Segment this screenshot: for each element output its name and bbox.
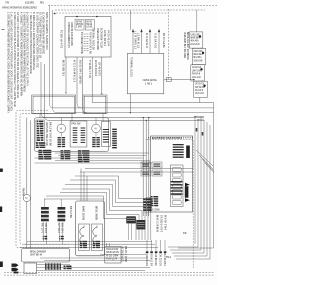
right rail wire 1 xyxy=(194,117,196,245)
stack2 wire end connector xyxy=(59,236,64,240)
svg-text:THERMAL FUSE BK: THERMAL FUSE BK xyxy=(92,28,96,50)
coil 1 connector block xyxy=(80,241,87,248)
svg-text:P2 BK W-4 P2: P2 BK W-4 P2 xyxy=(60,30,64,48)
control board upper connector rows xyxy=(173,144,184,158)
bus wire upper 2 xyxy=(45,64,205,120)
drop to stack 1 xyxy=(44,199,46,207)
svg-text:GY 41-8 GY: GY 41-8 GY xyxy=(98,62,102,76)
staircase wire 5 xyxy=(170,249,201,251)
right rail wire 2 xyxy=(197,120,199,247)
svg-text:REV: REV xyxy=(40,0,45,4)
right rail wire 4 xyxy=(203,120,205,253)
bottom label wire 2 xyxy=(151,240,153,251)
arrowhead supply 1 xyxy=(132,29,134,32)
svg-text:TERMINAL BLOCK: TERMINAL BLOCK xyxy=(130,57,134,77)
stack1 wire end connector xyxy=(43,236,48,240)
switch circle C2 xyxy=(92,124,101,133)
bottom label wire 4 xyxy=(160,240,162,251)
bottom label wire 1 xyxy=(146,240,148,251)
svg-text:BU 18-1: BU 18-1 xyxy=(61,223,65,234)
junction on bus xyxy=(130,112,131,113)
dashed vertical sub-frame right xyxy=(168,9,170,80)
tick marks above control border xyxy=(148,137,193,138)
dark connector under C1 xyxy=(61,150,71,159)
diagonal wire 2 xyxy=(199,155,213,169)
plug body box xyxy=(24,263,37,274)
wire S2 to M3 xyxy=(102,114,104,122)
switch module row outer box xyxy=(35,118,109,152)
diagonal wire 3 xyxy=(202,159,214,171)
stepped chain 6 xyxy=(46,196,136,240)
dark cluster board lower-left xyxy=(151,196,159,206)
junction dot on box A top 1 xyxy=(76,16,78,18)
svg-text:CLK BK9 CLK: CLK BK9 CLK xyxy=(154,254,158,267)
pin ladder box A xyxy=(84,34,89,51)
svg-text:GY 16-4: GY 16-4 xyxy=(57,223,61,233)
dark connector mid-bus xyxy=(78,150,90,162)
cascade connecting jogs xyxy=(200,47,203,49)
left wire to motor xyxy=(26,118,28,195)
notes text block xyxy=(7,12,49,113)
svg-text:BAKE 2600W: BAKE 2600W xyxy=(82,206,86,220)
svg-text:HI-R- HI-R-: HI-R- HI-R- xyxy=(192,75,201,79)
svg-text:UNIT BK-W: UNIT BK-W xyxy=(30,253,42,257)
terminal bar wire A1 xyxy=(65,92,67,94)
right rail wire 3 xyxy=(200,117,202,251)
wire below box A 4 going right xyxy=(92,57,213,103)
stepped chain 5 xyxy=(60,193,139,241)
svg-text:P5-2: P5-2 xyxy=(166,255,171,259)
svg-text:BROIL 3400W: BROIL 3400W xyxy=(95,206,99,220)
svg-text:GY 18-2 W GY: GY 18-2 W GY xyxy=(121,246,125,262)
bottom wire 1 xyxy=(40,257,148,259)
svg-text:DOOR SW BK-7 DOOR: DOOR SW BK-7 DOOR xyxy=(100,28,104,48)
svg-text:P/N: P/N xyxy=(6,0,10,4)
arrowhead supply 4 xyxy=(158,29,160,32)
svg-text:COOK R5 COOK: COOK R5 COOK xyxy=(145,254,149,267)
bottom wire run 1 xyxy=(20,247,158,249)
drop wire 1 xyxy=(142,118,144,216)
svg-text:( W ): ( W ) xyxy=(145,81,152,85)
wire above C1 xyxy=(60,118,62,124)
rail top tie 2 xyxy=(198,119,204,121)
connector stack left 2 xyxy=(58,207,66,221)
svg-text:OR 221 OR: OR 221 OR xyxy=(159,254,163,267)
svg-text:BR W12 BR: BR W12 BR xyxy=(150,254,154,267)
wire below C2 xyxy=(95,133,97,137)
svg-text:LO BK: LO BK xyxy=(86,25,92,29)
staircase wire 4 xyxy=(172,252,204,254)
svg-text:P4 GY 41-8 P4: P4 GY 41-8 P4 xyxy=(107,30,111,46)
left edge mark 2 xyxy=(0,207,2,213)
short drop below block A 2 xyxy=(131,224,133,241)
junction at cascade xyxy=(193,79,194,80)
module box M3 xyxy=(102,122,111,147)
svg-text:FAN SW: FAN SW xyxy=(72,121,81,125)
dashed frame top line 1 xyxy=(48,4,217,6)
staircase wire 6 xyxy=(168,246,198,248)
element coil 2 xyxy=(93,226,97,247)
connector ladder bottom xyxy=(45,263,61,270)
staircase wire 2 xyxy=(176,258,210,260)
cascade box 3 contact dot xyxy=(200,68,202,70)
svg-text:8101P5: 8101P5 xyxy=(25,0,34,4)
drop into lower box 1 xyxy=(80,169,82,202)
DIP rects xyxy=(172,168,181,205)
stack 1 wire a xyxy=(42,222,44,242)
switch circle C1 xyxy=(57,124,66,133)
stepped chain 3 xyxy=(65,185,145,241)
rail top tie 1 xyxy=(195,116,204,118)
diagonal wire 1 xyxy=(196,150,213,166)
wire terminal block bottom to bus xyxy=(129,94,131,113)
left frame line 1 curving to separator xyxy=(49,5,214,108)
right-most rail wire xyxy=(213,103,215,247)
lower bus wire 7 xyxy=(44,198,104,200)
svg-text:BU 52 OR-1 SW BU: BU 52 OR-1 SW BU xyxy=(78,60,82,84)
connector stack mid-right xyxy=(144,199,152,212)
dark connector bar upper xyxy=(186,146,190,159)
dashed nested border A xyxy=(16,110,70,247)
dark block module row lower-left xyxy=(36,142,46,148)
wire below box A 3 curving to bus xyxy=(83,57,87,113)
svg-text:BK-W 21 OR BK-W: BK-W 21 OR BK-W xyxy=(156,215,160,232)
component box A (control console) xyxy=(65,17,111,58)
element sub-box 1 xyxy=(79,224,90,251)
terminal bar wire A5 xyxy=(101,93,103,95)
rail label mark 1 xyxy=(196,128,198,132)
door box feed wire 1 xyxy=(105,243,107,247)
sensor connector rows xyxy=(171,181,183,195)
wire S1 to M2 xyxy=(71,114,73,122)
stack 1 wire b xyxy=(45,222,47,245)
left wire below motor xyxy=(26,202,28,249)
connector ladder strip right of modules xyxy=(112,129,117,149)
plug wire 1 xyxy=(37,264,71,266)
connector stack left 1 xyxy=(41,207,49,221)
svg-text:CONN BK W R OR CONN: CONN BK W R OR CONN xyxy=(70,22,74,46)
bottom label tick 2 xyxy=(150,251,153,253)
sensor connector arrow 2 xyxy=(185,198,190,202)
svg-text:R 10 GA R 10: R 10 GA R 10 xyxy=(154,33,158,48)
svg-text:BK 6-2 BK: BK 6-2 BK xyxy=(69,206,73,218)
neutral wire to cascade xyxy=(164,79,194,81)
cascade box 2 xyxy=(192,48,206,64)
door box feed wire 2 xyxy=(108,243,110,247)
supply wire 2 xyxy=(141,30,143,53)
arrowhead supply 3 xyxy=(149,29,151,32)
cascade box 4 contact dot xyxy=(203,85,205,87)
cascade box 4 xyxy=(194,81,208,97)
wire below box A 5 xyxy=(101,57,103,94)
drop to stack 2 xyxy=(60,199,62,207)
svg-text:LAT-W- LAT-W-: LAT-W- LAT-W- xyxy=(195,91,204,95)
staircase wire 3 xyxy=(174,255,207,257)
supply wire from frame xyxy=(129,10,131,30)
relay cluster fill marks xyxy=(142,164,160,175)
lower bus wire long 1 xyxy=(85,168,193,170)
module bus wire 1 xyxy=(55,152,149,154)
dashed frame top line 2 xyxy=(55,9,205,11)
bottom wire 3 xyxy=(100,254,146,256)
svg-text:BK 10 GA BK: BK 10 GA BK xyxy=(162,33,166,48)
drop into lower box 2 xyxy=(83,172,85,201)
wire below box A 1 xyxy=(65,57,67,93)
inline component on neutral wire xyxy=(166,78,171,82)
plug wire 3 xyxy=(37,270,146,272)
bottom label wire 5 xyxy=(164,240,166,251)
drop into lower box 3 xyxy=(86,176,88,201)
M3 pin rows xyxy=(103,129,109,143)
module box M2 xyxy=(70,121,87,147)
staircase wire 1 xyxy=(178,246,214,248)
svg-text:M: M xyxy=(25,197,27,200)
dark connector bar mid xyxy=(185,186,189,198)
drop wire 2 xyxy=(145,120,147,216)
svg-text:BK 12-6: BK 12-6 xyxy=(41,223,45,234)
svg-text:OVEN LIGHT SW OVEN: OVEN LIGHT SW OVEN xyxy=(96,28,100,50)
svg-text:FAN FAN: FAN FAN xyxy=(22,188,26,196)
bottom label tick 4 xyxy=(159,251,162,253)
junction dot on box A top 2 xyxy=(96,16,98,18)
door lock box xyxy=(105,247,121,264)
svg-text:W 31-2 GY 44 W 31-2: W 31-2 GY 44 W 31-2 xyxy=(73,60,77,82)
stack 2 wire b xyxy=(62,222,64,245)
lower element box (bake/broil) xyxy=(76,201,105,256)
bottom wire 2 xyxy=(44,260,150,262)
right rail wire 5 xyxy=(206,122,208,256)
svg-text:OVE-BK OVE-BK: OVE-BK OVE-BK xyxy=(194,58,203,62)
short drop below block A 1 xyxy=(128,224,130,241)
left frame line 2 curving to separator xyxy=(53,10,214,113)
dark connector under module 1 xyxy=(38,150,51,160)
box A sub-box 1 (fan motor) xyxy=(75,20,84,31)
diagonal wire 4 xyxy=(205,163,214,173)
connector bits right of ladder xyxy=(64,266,72,270)
wire below C1 xyxy=(60,133,62,137)
svg-text:OR 14-2: OR 14-2 xyxy=(44,223,48,233)
stepped chain 1 xyxy=(75,176,151,240)
left edge tick xyxy=(2,28,5,31)
stepped chain 4 xyxy=(62,189,142,240)
svg-text:BK BK: BK BK xyxy=(183,231,187,235)
wire below box A 2 curving to bus xyxy=(77,57,81,108)
pin block below C2 xyxy=(92,137,100,147)
svg-text:GY-2 BU 14 GY-2: GY-2 BU 14 GY-2 xyxy=(160,215,164,232)
DIP column box xyxy=(171,165,184,207)
module bus wire 2 xyxy=(58,155,146,157)
dashed top line 3 partial xyxy=(56,12,168,14)
coil 2 connector block xyxy=(93,241,100,248)
M2 pin columns xyxy=(73,128,86,143)
bottom wire run 2 xyxy=(24,243,155,245)
wire above C2 xyxy=(95,118,97,124)
svg-text:L2 BK N L2: L2 BK N L2 xyxy=(137,33,141,48)
svg-text:HI: HI xyxy=(60,128,63,131)
plug wire 2 xyxy=(37,267,151,269)
relay cluster boxes xyxy=(141,162,162,176)
sensor connector arrow 1 xyxy=(185,183,190,187)
svg-text:LATCH SW W-2: LATCH SW W-2 xyxy=(103,30,107,46)
svg-text:BK 12 W 14 R 16 BK: BK 12 W 14 R 16 BK xyxy=(49,122,53,146)
element coil 1 xyxy=(80,226,84,247)
junction drop 3 xyxy=(148,117,149,118)
stack 2 wire a xyxy=(59,222,61,242)
bus wire upper 1 xyxy=(41,62,204,118)
left edge mark 3 xyxy=(0,262,3,268)
svg-text:LIN-40 LIN-40: LIN-40 LIN-40 xyxy=(191,42,200,46)
dashed nested border B xyxy=(20,113,70,244)
rail label mark 2 xyxy=(202,132,204,136)
wire S1 to module row xyxy=(39,114,41,118)
element sub-box 2 xyxy=(92,224,103,251)
module bus wire 5 xyxy=(35,162,153,164)
dashed control-section border xyxy=(147,140,194,269)
module bus wire 4 xyxy=(55,160,150,162)
supply wire 3 xyxy=(149,30,151,53)
svg-text:WIRING INFORMATION JES9800 SER: WIRING INFORMATION JES9800 SERIES xyxy=(2,6,37,10)
svg-text:BK 20-7 R BK: BK 20-7 R BK xyxy=(124,246,128,262)
wire from frame to cascade box 1 xyxy=(196,10,198,32)
plug prong marks xyxy=(12,264,19,274)
cascade box 1 xyxy=(189,32,203,48)
cascade box 3 xyxy=(191,65,205,81)
box A sub-box 2 (vent sw) xyxy=(85,20,94,31)
text stack outline xyxy=(36,120,44,142)
drawer unit box xyxy=(22,249,70,263)
cascade box 1 contact dot xyxy=(199,35,201,37)
cascade box 2 contact dot xyxy=(202,52,204,54)
svg-text:W-9 BK 3 W-9: W-9 BK 3 W-9 xyxy=(163,215,167,230)
junction drop 2 xyxy=(146,120,147,121)
surface element box S2 (double outline) xyxy=(83,95,107,114)
bottom wire run 3 xyxy=(27,241,152,243)
right rail wire 6 xyxy=(209,125,211,259)
svg-text:BK 25-3 BK 25-3: BK 25-3 BK 25-3 xyxy=(62,60,66,76)
convection motor circle xyxy=(23,194,30,201)
left edge mark 1 xyxy=(0,169,3,172)
dashed frame bottom line 1 xyxy=(4,272,214,274)
connector block A xyxy=(126,216,136,223)
module bus wire 3 xyxy=(35,157,144,159)
left bus wire 2 xyxy=(30,120,32,248)
drop wire 3 xyxy=(148,118,150,216)
bottom label tick 5 xyxy=(164,251,167,253)
lower bus wire long 2 xyxy=(80,171,193,173)
svg-text:HI: HI xyxy=(95,128,98,131)
svg-text:2 SPD: 2 SPD xyxy=(76,25,82,29)
dashed frame bottom line 2 xyxy=(4,274,214,276)
svg-text:NOTE SCHEMATIC SHOWN OFF: NOTE SCHEMATIC SHOWN OFF xyxy=(45,12,49,50)
svg-text:W 10 GA W 10: W 10 GA W 10 xyxy=(145,33,149,48)
wire cascade box 4 to rail xyxy=(199,97,201,102)
dark text stack module 1 xyxy=(37,121,44,141)
svg-text:INFINITE SW LF RF: INFINITE SW LF RF xyxy=(45,122,49,146)
electronic oven control board xyxy=(151,136,193,212)
svg-text:W-2 R 44 W-2: W-2 R 44 W-2 xyxy=(94,60,98,76)
junction drop 1 xyxy=(143,117,144,118)
arrowhead supply 2 xyxy=(141,29,143,32)
svg-text:P1 CONNECTOR PIN: P1 CONNECTOR PIN xyxy=(80,32,84,54)
bottom label wire 3 xyxy=(155,240,157,251)
connector block B xyxy=(137,220,146,229)
pin block below C1 xyxy=(58,137,66,147)
surface element box S1 (double outline) xyxy=(32,95,76,114)
stepped chain 2 xyxy=(70,180,148,240)
svg-text:ELECTRONIC OVEN CONTROL: ELECTRONIC OVEN CONTROL xyxy=(152,136,182,140)
terminal block box xyxy=(127,53,163,93)
junction dot on dashed frame xyxy=(54,13,56,14)
supply wire 4 xyxy=(158,30,160,53)
supply wire 1 xyxy=(132,30,134,53)
bottom label tick 3 xyxy=(155,251,158,253)
svg-text:P6 W-11 P6: P6 W-11 P6 xyxy=(106,257,117,261)
bottom label tick 1 xyxy=(146,251,149,253)
svg-text:Y 33 BK-7 Y 33: Y 33 BK-7 Y 33 xyxy=(88,60,92,78)
